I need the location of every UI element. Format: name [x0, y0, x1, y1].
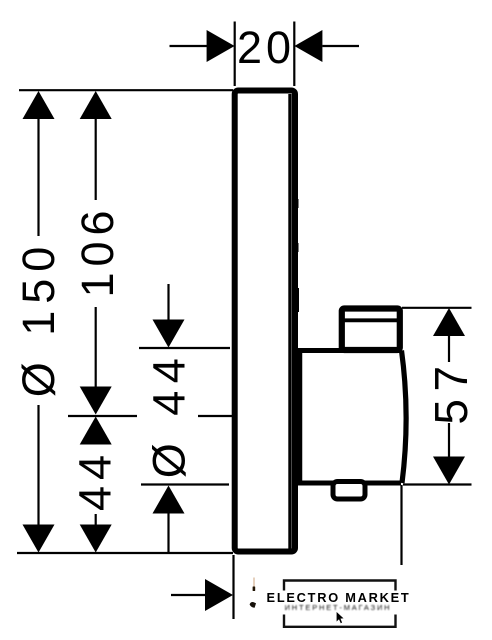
dim 150: bottom arrowhead [23, 525, 55, 553]
mouse cursor [336, 611, 344, 623]
dim 106: bottom arrowhead [80, 387, 112, 415]
bottom hidden dim: vertical extension below plate [232, 555, 234, 619]
dim 150: upper shaft [37, 117, 39, 236]
svg-text:44: 44 [70, 449, 121, 511]
dim 57: bottom arrowhead [433, 457, 465, 485]
dim diam 44 (handle): upper shaft [167, 284, 169, 321]
center extension line right segment (y=416) [198, 415, 232, 417]
handle top extension line right (y=307.5) [402, 307, 472, 309]
dim 44 (center to bottom): top arrowhead [80, 417, 112, 445]
svg-text:20: 20 [237, 22, 295, 73]
handle bottom extension line left (y=484) [141, 483, 229, 485]
dim 20: left vertical extension line [234, 22, 236, 87]
artifact: dark blob [250, 602, 256, 608]
handle body top edge [296, 348, 401, 353]
dim diam 44: top arrowhead pointing down [153, 320, 185, 348]
plate right edge nub upper [296, 199, 299, 208]
bottom hidden dim: right vertical extension below handle [400, 485, 402, 565]
logo bracket bottom [284, 615, 396, 627]
knob inner line [344, 318, 398, 322]
dim diam 44: bottom arrowhead pointing up [153, 486, 185, 514]
dim 106: upper shaft [95, 117, 97, 200]
handle bottom extension line right (y=484.5) [403, 483, 472, 485]
svg-text:57: 57 [425, 358, 477, 424]
handle body left edge [296, 348, 303, 485]
dim 57: top arrowhead [433, 308, 465, 336]
handle body curved right edge [402, 351, 407, 484]
handle body bottom edge [296, 481, 401, 486]
dim 106: lower shaft [95, 307, 97, 389]
artifact: faint orange vertical remnant [253, 578, 255, 588]
handle top extension line (y=348) [139, 347, 230, 349]
dim diam 44: lower shaft [167, 512, 169, 553]
dim 20: right arrowhead [294, 30, 322, 62]
svg-text:106: 106 [72, 204, 123, 297]
dim 20: right vertical extension line [293, 22, 295, 87]
svg-text:ИНТЕРНЕТ-МАГАЗИН: ИНТЕРНЕТ-МАГАЗИН [285, 603, 392, 612]
artifact: dark tip dot [253, 587, 256, 592]
bottom hidden dim: arrowhead pointing right [205, 579, 233, 611]
escutcheon plate outline (side view) [235, 91, 295, 552]
dim 150: lower shaft [37, 405, 39, 526]
dim 20: left arrow tail [170, 45, 208, 47]
dim 106: top arrowhead [80, 91, 112, 119]
plate right face inner thickening [288, 94, 291, 549]
top extension line of plate (y=90) [19, 89, 233, 91]
knob upper block (select button housing) [342, 309, 400, 351]
center extension line left segment (y=416) [68, 415, 137, 417]
bottom extension line of plate (y=553) [17, 552, 233, 554]
dim 57: lower shaft [448, 423, 450, 458]
svg-text:Ø 44: Ø 44 [144, 351, 195, 479]
dim 20: right arrow tail [322, 45, 359, 47]
dim 44: lower shaft stub [95, 514, 97, 527]
bottom hidden dim: arrow tail [171, 594, 206, 596]
svg-text:Ø 150: Ø 150 [13, 240, 64, 398]
logo bracket top [284, 581, 396, 591]
dim 150: top arrowhead [23, 91, 55, 119]
bottom tab (clip) on handle [333, 482, 365, 500]
dim 44: bottom arrowhead [80, 525, 112, 553]
plate right edge thickening lower [296, 288, 300, 312]
plate right edge nub middle [296, 243, 299, 252]
dim 20: left arrowhead [207, 30, 235, 62]
dim 57: upper shaft [448, 335, 450, 363]
